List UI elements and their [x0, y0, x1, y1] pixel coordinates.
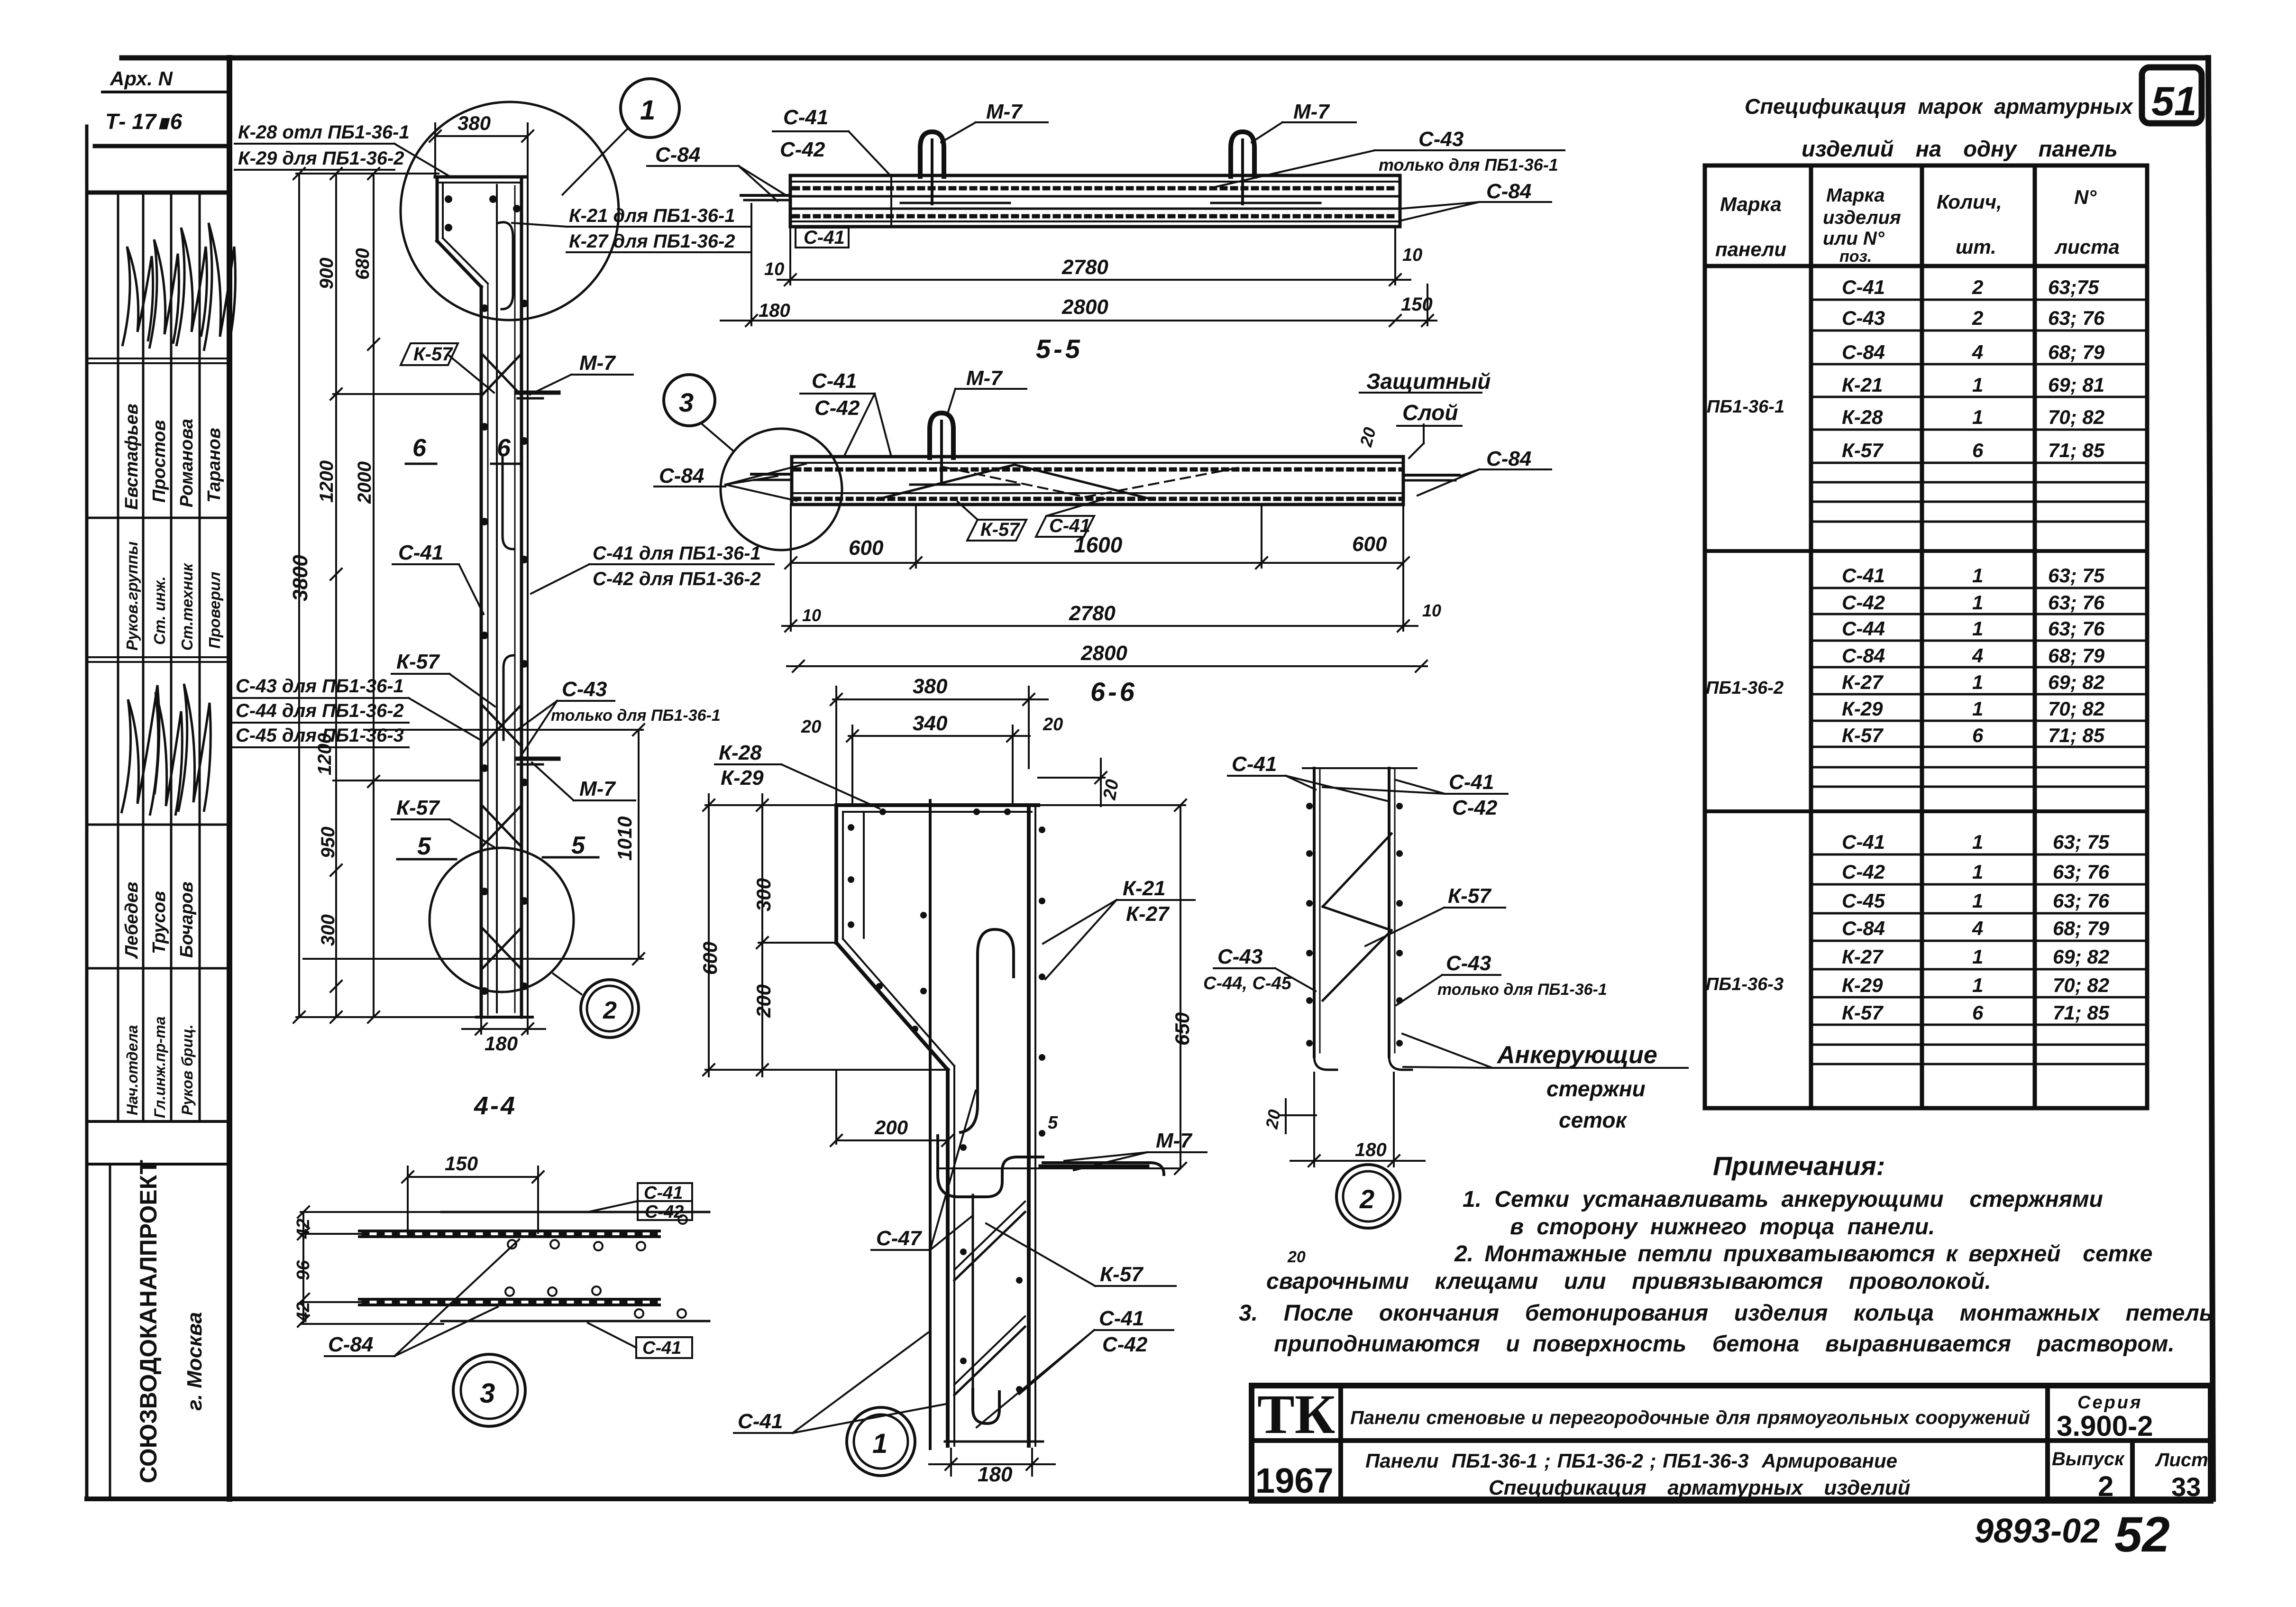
dim line 2800 under 6-6 [787, 665, 1427, 667]
dim 20 small left detail2 [1280, 1114, 1316, 1116]
svg-text:150: 150 [1401, 294, 1433, 315]
section 4-4 head left edge [436, 177, 439, 241]
stamp row lines [88, 358, 229, 359]
section 6-6 inner bottom line [792, 492, 1403, 494]
detail1 tie diagonal 2 [954, 1327, 1025, 1395]
svg-text:только для ПБ1-36-1: только для ПБ1-36-1 [551, 707, 721, 725]
detail1 left edge [834, 805, 838, 943]
spec table header bottom line [1705, 264, 2147, 268]
svg-text:С-84: С-84 [1842, 917, 1885, 939]
svg-text:2. Монтажные петли прихватываю: 2. Монтажные петли прихватываются к верх… [1454, 1241, 2152, 1267]
frame top border [122, 55, 2207, 61]
detail1 tie diagonal 1 [954, 1212, 1025, 1280]
svg-text:С-41: С-41 [1842, 276, 1885, 298]
svg-text:Ст. инж.: Ст. инж. [151, 576, 168, 645]
dim line 600 1600 600 under 6-6 [791, 562, 1403, 564]
svg-text:С-47: С-47 [876, 1227, 923, 1250]
spec table group divider 1 [1705, 549, 2147, 553]
leader K-57 detail1 [1095, 1285, 1176, 1287]
leader C-43 5-5 [1375, 149, 1564, 151]
leader M-7 detail1 [1147, 1151, 1207, 1153]
frame right border [2208, 58, 2213, 1499]
svg-text:340: 340 [913, 712, 948, 735]
detail circle on 4-4 head [401, 79, 679, 1038]
arch number box line [102, 91, 229, 93]
svg-text:180: 180 [978, 1463, 1013, 1486]
svg-text:33: 33 [2171, 1472, 2201, 1502]
svg-text:200: 200 [874, 1116, 908, 1139]
svg-text:68; 79: 68; 79 [2053, 917, 2110, 939]
svg-text:1: 1 [1972, 890, 1983, 912]
svg-text:20: 20 [1262, 1108, 1284, 1131]
svg-text:2000: 2000 [354, 461, 375, 504]
section 4-4 rebar dots [445, 195, 528, 995]
svg-text:1: 1 [1972, 698, 1983, 720]
svg-text:Руков бриц.: Руков бриц. [179, 1024, 196, 1115]
svg-text:С-43: С-43 [1842, 307, 1885, 329]
svg-text:42: 42 [293, 1219, 313, 1239]
stamp names row2 [122, 882, 197, 959]
label box C-41 C-42 detail3 [638, 1183, 692, 1220]
svg-text:панели: панели [1715, 238, 1786, 260]
svg-text:Лист: Лист [2155, 1450, 2208, 1470]
svg-text:180: 180 [485, 1032, 518, 1055]
section 6-6 inner top line [792, 462, 1403, 464]
section 5-5 mid line [790, 195, 1400, 198]
section 5-5 top hatch row [794, 186, 1398, 191]
svg-text:К-28: К-28 [719, 741, 762, 764]
stamp sub-column lines [117, 193, 119, 1121]
svg-text:К-21: К-21 [1842, 374, 1883, 396]
svg-text:63; 76: 63; 76 [2048, 591, 2105, 614]
svg-text:6: 6 [1972, 439, 1984, 461]
svg-text:М-7: М-7 [579, 777, 616, 800]
svg-text:С-41: С-41 [398, 541, 443, 564]
svg-text:4: 4 [1972, 341, 1983, 363]
svg-text:С-84: С-84 [1486, 447, 1531, 470]
section 6-6 right anchor rod 1 [1403, 474, 1459, 477]
svg-text:71; 85: 71; 85 [2053, 1001, 2110, 1024]
svg-text:51: 51 [2151, 79, 2197, 124]
dim 42 96 42 detail3 [302, 1212, 304, 1324]
svg-text:10: 10 [802, 606, 821, 625]
svg-text:Панели стеновые и перегородочн: Панели стеновые и перегородочные для пря… [1350, 1407, 2030, 1428]
svg-text:С-44, С-45: С-44, С-45 [1203, 973, 1292, 993]
loop M-7 on 6-6 [930, 413, 953, 458]
svg-text:К-29: К-29 [1842, 974, 1883, 996]
svg-text:1: 1 [872, 1428, 887, 1459]
section 6-6 left anchor rod 1 [751, 473, 792, 476]
svg-text:С-43 для ПБ1-36-1: С-43 для ПБ1-36-1 [236, 676, 404, 697]
svg-text:С-84: С-84 [655, 143, 700, 166]
svg-text:С-41: С-41 [1099, 1307, 1144, 1330]
detail2 tie zigzag [1323, 834, 1391, 907]
sheet number box 51 [2142, 67, 2202, 124]
svg-text:1: 1 [1972, 617, 1983, 640]
svg-text:поз.: поз. [1839, 248, 1872, 266]
STAMP COLUMN [88, 92, 229, 1499]
svg-text:К-57: К-57 [1448, 884, 1492, 908]
spec table group divider 2 [1705, 809, 2147, 813]
svg-text:Защитный: Защитный [1366, 369, 1491, 394]
svg-text:С-84: С-84 [659, 464, 704, 487]
leader K-28 K-29 [235, 143, 394, 145]
dim 200 below diagonal [835, 1072, 837, 1144]
stamp bottom box divider [109, 1164, 111, 1499]
stamp signatures row2 [121, 684, 210, 816]
loop M-7 right on 5-5 [1231, 132, 1254, 176]
section 4-4 bottom edge [476, 1016, 532, 1019]
section 4-4 mid hook 2 [503, 655, 514, 740]
svg-text:650: 650 [1171, 1012, 1193, 1046]
svg-text:6: 6 [1972, 1001, 1984, 1024]
leader C-41 C-42 on 5-5 [773, 130, 849, 132]
svg-text:9893-02: 9893-02 [1975, 1512, 2100, 1550]
spec table row lines group3 [1811, 854, 2147, 856]
svg-text:20: 20 [1287, 1248, 1306, 1266]
svg-text:Колич,: Колич, [1937, 191, 2002, 213]
svg-text:5: 5 [571, 832, 585, 859]
stamp signatures row1 [122, 223, 235, 351]
svg-text:10: 10 [764, 259, 784, 279]
detail circle on 6-6 left end [721, 429, 842, 550]
section 5-5 inner bottom line [790, 220, 1400, 222]
svg-text:900: 900 [316, 257, 337, 289]
svg-text:стержни: стержни [1546, 1076, 1646, 1101]
detail2 rebar dots [1306, 803, 1403, 1047]
svg-text:180: 180 [1355, 1139, 1387, 1160]
leader C-41 C-42 top right detail2 [1445, 793, 1508, 795]
svg-text:С-42: С-42 [1842, 591, 1885, 614]
svg-text:5-5: 5-5 [1036, 334, 1083, 364]
leader ankernye detail2 [1492, 1067, 1688, 1069]
callout circle 1 bottom [847, 1407, 915, 1476]
section 6-6 brace diagonal 1 [877, 465, 1015, 499]
svg-text:6: 6 [497, 434, 511, 462]
svg-text:К-57: К-57 [1842, 1001, 1884, 1024]
svg-text:69; 82: 69; 82 [2048, 671, 2104, 693]
svg-text:63;75: 63;75 [2048, 276, 2099, 298]
svg-text:680: 680 [352, 248, 373, 280]
svg-text:1600: 1600 [1074, 533, 1123, 557]
svg-text:Нач.отдела: Нач.отдела [124, 1025, 141, 1115]
leader C-84 left 6-6 [654, 486, 725, 487]
svg-text:С-41: С-41 [783, 106, 828, 129]
detail3 upper rod bar [359, 1230, 659, 1232]
svg-text:ПБ1-36-2: ПБ1-36-2 [1706, 678, 1784, 698]
svg-text:С-42: С-42 [645, 1202, 684, 1222]
svg-text:69; 82: 69; 82 [2053, 946, 2109, 968]
label box C-41 detail3 [636, 1337, 692, 1358]
dim 180 under 4-4 [480, 1019, 482, 1034]
svg-text:52: 52 [2114, 1507, 2170, 1562]
svg-text:С-84: С-84 [1842, 341, 1885, 363]
svg-text:20: 20 [1043, 715, 1063, 735]
label box C-41 under 6-6 [1036, 516, 1094, 537]
leader C-41 C-42 on 6-6 [800, 393, 875, 395]
section 5-5 inner top line [790, 181, 1400, 183]
svg-text:1: 1 [1972, 861, 1983, 883]
NOTES [1239, 1151, 2213, 1357]
svg-text:Примечания:: Примечания: [1713, 1151, 1885, 1181]
svg-text:К-57: К-57 [1100, 1263, 1144, 1286]
svg-text:СОЮЗВОДОКАНАЛПРОЕКТ: СОЮЗВОДОКАНАЛПРОЕКТ [135, 1160, 162, 1483]
leader M-7 right 5-5 [1282, 121, 1356, 123]
svg-text:Серия: Серия [2077, 1393, 2142, 1413]
svg-text:К-27 для ПБ1-36-2: К-27 для ПБ1-36-2 [569, 231, 735, 252]
dim 340 over detail1 [849, 735, 1030, 737]
leader C-41 C-42 right [589, 563, 774, 565]
dim 180 detail2 [1313, 1073, 1315, 1166]
svg-text:С-42: С-42 [1102, 1333, 1148, 1356]
svg-text:С-41: С-41 [1449, 771, 1494, 794]
detail2 bottom hook right [1389, 1056, 1412, 1070]
section 6-6 brace diagonal 3 [943, 467, 1086, 497]
svg-text:К-57: К-57 [980, 519, 1020, 540]
svg-text:2: 2 [1359, 1184, 1374, 1214]
svg-text:К-21: К-21 [1123, 877, 1166, 900]
title block seriya divider [2045, 1386, 2050, 1501]
svg-text:6-6: 6-6 [1090, 677, 1137, 707]
leader C-84 left 5-5 [647, 165, 739, 167]
section 5-5 bottom hatch row [794, 214, 1398, 219]
section 4-4 inner rebar 1 [496, 185, 498, 1012]
svg-text:К-29: К-29 [721, 766, 764, 790]
svg-text:5: 5 [1048, 1113, 1058, 1133]
svg-text:1010: 1010 [613, 817, 636, 861]
svg-text:69; 81: 69; 81 [2048, 374, 2104, 396]
section 5-5 panel body [790, 175, 1400, 227]
stamp names row [122, 404, 224, 510]
section 4-4 tie X 2 [483, 706, 521, 745]
dim extension bottom 4-4 [296, 1016, 479, 1018]
svg-text:63; 76: 63; 76 [2053, 890, 2110, 912]
svg-text:10: 10 [1402, 245, 1422, 265]
svg-text:К-29 для ПБ1-36-2: К-29 для ПБ1-36-2 [238, 148, 404, 169]
leader C-84 right 5-5 [1479, 201, 1551, 203]
callout circle 2 detail2 [1336, 1165, 1400, 1228]
svg-text:71; 85: 71; 85 [2048, 724, 2105, 746]
title block TK divider [1338, 1386, 1343, 1501]
svg-text:1: 1 [1972, 946, 1983, 968]
svg-text:С-42: С-42 [814, 396, 860, 420]
leader C-41 top left detail2 [1228, 775, 1286, 777]
leader C-43 right detail2 [1442, 974, 1500, 976]
leader K-21 K-27 [567, 226, 751, 228]
detail1 top edge [836, 803, 1038, 807]
detail1 hook M-7 snake [938, 1136, 1043, 1197]
svg-text:Трусов: Трусов [149, 891, 169, 954]
svg-text:С-42 для ПБ1-36-2: С-42 для ПБ1-36-2 [593, 569, 761, 589]
leader C-43 C-44 C-45 left [232, 697, 409, 699]
dim chain 900 1200 1200 300 [335, 174, 337, 1017]
callout circle 2 bottom of 4-4 [581, 980, 639, 1038]
svg-text:С-41: С-41 [644, 1183, 683, 1203]
svg-text:1: 1 [1972, 374, 1983, 396]
svg-text:300: 300 [318, 914, 338, 946]
svg-text:сварочными клещами или прив: сварочными клещами или привязываются про… [1266, 1269, 1991, 1294]
svg-text:С-43: С-43 [1446, 952, 1491, 975]
leader K-57 a box [401, 343, 458, 365]
svg-text:С-41: С-41 [1842, 831, 1885, 853]
svg-text:Таранов: Таранов [204, 428, 224, 503]
detail3 lower rod bar [359, 1298, 659, 1301]
svg-text:С-84: С-84 [1842, 644, 1885, 667]
svg-text:С-41 для ПБ1-36-1: С-41 для ПБ1-36-1 [593, 543, 761, 564]
svg-text:Евстафьев: Евстафьев [122, 404, 142, 510]
svg-text:К-21 для ПБ1-36-1: К-21 для ПБ1-36-1 [569, 205, 735, 226]
svg-text:К-27: К-27 [1126, 902, 1170, 926]
svg-text:ПБ1-36-3: ПБ1-36-3 [1706, 974, 1784, 994]
detail circle on 4-4 bottom [430, 848, 574, 992]
left dim extensions detail1 [705, 804, 835, 806]
svg-text:Марка: Марка [1720, 193, 1782, 215]
svg-text:сеток: сеток [1559, 1108, 1628, 1132]
detail1 inner rebar left [863, 812, 865, 938]
leader C-41 a [393, 563, 459, 565]
svg-text:4-4: 4-4 [474, 1092, 517, 1120]
svg-text:Спецификация марок арматурны: Спецификация марок арматурных [1745, 94, 2134, 119]
svg-text:1: 1 [640, 95, 655, 126]
svg-text:950: 950 [318, 826, 338, 858]
section 5-5 left anchor rod 1 [741, 194, 790, 197]
svg-text:или N°: или N° [1823, 228, 1885, 249]
svg-text:Анкерующие: Анкерующие [1496, 1041, 1657, 1069]
section 4-4 M-7 anchor top [518, 391, 558, 395]
svg-text:42: 42 [293, 1302, 313, 1322]
svg-text:300: 300 [752, 878, 775, 911]
svg-text:2: 2 [1972, 276, 1983, 298]
svg-text:К-57: К-57 [396, 650, 440, 673]
frame left separator [227, 58, 232, 1499]
svg-text:М-7: М-7 [986, 100, 1023, 123]
svg-text:150: 150 [445, 1152, 478, 1175]
svg-text:3.900-2: 3.900-2 [2057, 1410, 2153, 1442]
svg-text:ТК: ТК [1257, 1383, 1335, 1445]
svg-text:ПБ1-36-1: ПБ1-36-1 [1707, 397, 1784, 417]
svg-text:С-41: С-41 [1232, 753, 1277, 776]
dim line 2780 under 5-5 [778, 279, 1410, 281]
svg-text:только для ПБ1-36-1: только для ПБ1-36-1 [1379, 155, 1558, 174]
detail2 left face [1313, 768, 1316, 1056]
leader M-7 b [574, 799, 635, 801]
leader M-7 a [571, 374, 633, 376]
svg-text:М-7: М-7 [579, 351, 616, 375]
section 4-4 inner rebar 2 [514, 186, 516, 1012]
left dim chain 600 [708, 794, 710, 1076]
svg-text:3800: 3800 [289, 555, 312, 601]
svg-text:Лебедев: Лебедев [122, 882, 142, 959]
frame bottom border [87, 1497, 2213, 1501]
section 6-6 panel body [792, 457, 1403, 505]
dim 180 bottom detail1 [950, 1449, 952, 1476]
svg-text:1: 1 [1972, 831, 1983, 853]
svg-text:С-41: С-41 [1842, 564, 1885, 587]
label box C-41 below 5-5 [796, 228, 849, 248]
detail3 upper mesh line [441, 1211, 709, 1213]
svg-text:Гл.инж.пр-та: Гл.инж.пр-та [151, 1016, 168, 1118]
loop M-7 left on 5-5 [920, 132, 944, 176]
section 5-5 left anchor rod 2 [744, 199, 790, 202]
leader zashchitny sloy [1360, 392, 1482, 394]
svg-text:изделий на одну панель: изделий на одну панель [1802, 136, 2118, 161]
svg-text:1: 1 [1972, 671, 1983, 693]
svg-text:20: 20 [1099, 778, 1123, 802]
dim 650 right detail1 [1180, 805, 1181, 1168]
svg-text:1967: 1967 [1255, 1461, 1334, 1500]
svg-text:4: 4 [1972, 644, 1983, 667]
leader C-41 left detail1 [734, 1432, 793, 1434]
svg-text:К-28: К-28 [1842, 406, 1883, 428]
title block vypusk list divider [2130, 1441, 2135, 1501]
svg-text:3: 3 [480, 1378, 495, 1409]
section 6-6 brace diagonal 2 [1015, 465, 1152, 499]
dim 380 over 4-4 head [435, 135, 528, 137]
section 6-6 left anchor rod 2 [755, 479, 792, 481]
svg-text:С-42: С-42 [780, 138, 825, 161]
svg-text:380: 380 [457, 112, 491, 134]
svg-text:1: 1 [1972, 974, 1983, 996]
svg-text:Выпуск: Выпуск [2052, 1449, 2125, 1469]
label box K-57 under 6-6 [967, 520, 1026, 541]
svg-text:М-7: М-7 [1293, 100, 1330, 123]
section 4-4 right face [520, 177, 523, 1017]
svg-text:1: 1 [1972, 591, 1983, 614]
svg-text:Романова: Романова [177, 419, 197, 507]
svg-text:К-57: К-57 [413, 344, 453, 365]
stamp left edge [85, 126, 89, 1499]
svg-text:2780: 2780 [1069, 602, 1116, 625]
svg-text:600: 600 [849, 536, 884, 560]
svg-text:С-45 для ПБ1-36-3: С-45 для ПБ1-36-3 [236, 725, 404, 746]
svg-text:С-42: С-42 [1842, 861, 1885, 883]
dim chain 3800 [298, 174, 300, 1017]
svg-text:г. Москва: г. Москва [183, 1312, 206, 1411]
svg-text:К-27: К-27 [1842, 946, 1884, 968]
detail2 bottom hook left [1314, 1056, 1337, 1070]
detail1 right edge [1027, 805, 1031, 1446]
dim 20 right top detail1 [1038, 777, 1105, 779]
svg-text:Бочаров: Бочаров [177, 882, 197, 958]
dim extension mid2 4-4 [333, 780, 481, 781]
svg-text:С-43: С-43 [562, 678, 607, 701]
section 6-6 bottom hatch row [796, 497, 1401, 501]
section 4-4 head diagonal [437, 241, 481, 287]
detail3 rebar dots [505, 1215, 687, 1318]
svg-text:63; 75: 63; 75 [2053, 831, 2110, 853]
svg-text:Арх. N: Арх. N [110, 67, 174, 90]
svg-text:приподнимаются и поверхность: приподнимаются и поверхность бетона выра… [1274, 1332, 2175, 1357]
svg-text:63; 76: 63; 76 [2048, 617, 2105, 640]
section 6-6 brace diagonal 4 [1086, 467, 1242, 497]
svg-text:Руков.группы: Руков.группы [123, 542, 141, 651]
dim extension top 4-4 [296, 173, 439, 174]
svg-text:Простов: Простов [149, 420, 169, 503]
svg-text:1: 1 [1972, 406, 1983, 428]
svg-text:К-28 отл ПБ1-36-1: К-28 отл ПБ1-36-1 [238, 122, 410, 143]
leader K-28 K-29 detail1 [715, 763, 781, 765]
svg-text:С-41: С-41 [642, 1338, 681, 1358]
svg-text:Слой: Слой [1402, 400, 1458, 425]
detail2 right face [1388, 768, 1390, 1056]
svg-text:С-84: С-84 [328, 1333, 373, 1356]
leader K-57 detail2 [1444, 907, 1505, 909]
leader C-84 detail3 [325, 1355, 394, 1357]
svg-text:20: 20 [801, 717, 821, 737]
svg-text:180: 180 [759, 300, 790, 321]
spec table outer box [1705, 165, 2147, 1108]
svg-text:70; 82: 70; 82 [2048, 698, 2104, 720]
